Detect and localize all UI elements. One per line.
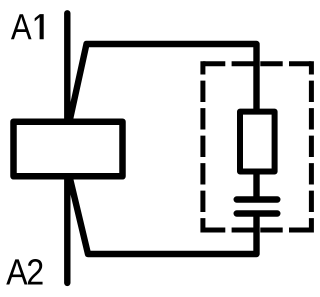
wire: resistor to capacitor link	[253, 170, 259, 201]
capacitor C1 bottom plate	[237, 210, 278, 216]
resistor R1 (suppressor resistor)	[240, 112, 275, 172]
dashed enclosure: RC suppressor module, right edge	[309, 61, 314, 232]
coil K1 (contactor coil rectangle)	[14, 122, 123, 177]
terminal label A2	[6, 259, 42, 284]
wire: top tap from coil A1 side to suppressor top lead	[70, 44, 257, 122]
wire: A1-A2 vertical line through coil	[64, 13, 70, 283]
wire: bottom tap from coil A2 side to suppressor bottom lead	[70, 177, 257, 255]
capacitor C1 top plate	[237, 196, 278, 202]
dashed enclosure: RC suppressor module, left edge	[200, 61, 205, 232]
dashed enclosure: RC suppressor module, top edge	[203, 61, 312, 66]
terminal label A1	[11, 14, 44, 39]
dashed enclosure: RC suppressor module, bottom edge	[203, 228, 312, 233]
